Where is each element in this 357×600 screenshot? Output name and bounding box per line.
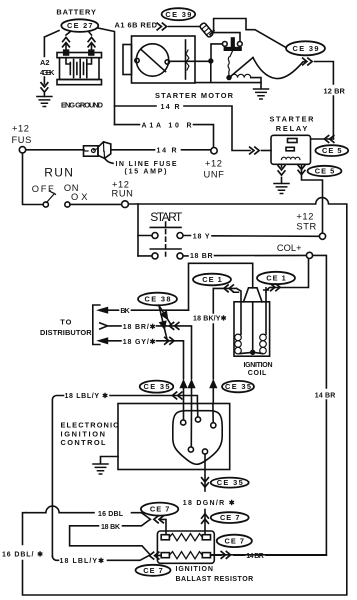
svg-text:CE 5: CE 5 — [322, 146, 342, 155]
svg-text:CE 27: CE 27 — [67, 21, 93, 30]
svg-text:4G BK: 4G BK — [40, 68, 55, 77]
svg-text:CE 35: CE 35 — [225, 382, 251, 391]
svg-text:16 DBL/ ✱: 16 DBL/ ✱ — [2, 551, 43, 559]
svg-text:IN LINE FUSE: IN LINE FUSE — [116, 161, 177, 168]
svg-text:18 BR/✱: 18 BR/✱ — [123, 323, 156, 331]
svg-text:CONTROL: CONTROL — [61, 438, 106, 447]
svg-text:CE 7: CE 7 — [150, 505, 170, 514]
svg-text:CE 7: CE 7 — [220, 513, 240, 522]
svg-text:CE 1: CE 1 — [266, 274, 286, 283]
svg-text:ELECTRONIC: ELECTRONIC — [61, 420, 120, 429]
svg-text:18 BR: 18 BR — [190, 253, 213, 260]
svg-text:14 R: 14 R — [157, 147, 177, 154]
svg-text:16 DBL: 16 DBL — [98, 511, 124, 518]
svg-text:ENG GROUND: ENG GROUND — [61, 100, 104, 109]
svg-text:RUN: RUN — [112, 189, 134, 199]
svg-text:CE 39: CE 39 — [165, 10, 191, 19]
svg-text:+12: +12 — [205, 159, 223, 169]
svg-text:18 BK: 18 BK — [101, 524, 120, 531]
svg-text:CE 38: CE 38 — [145, 295, 171, 304]
svg-text:A1A 10 R: A1A 10 R — [142, 122, 192, 129]
svg-text:IGNITION: IGNITION — [176, 566, 213, 573]
svg-text:CE 7: CE 7 — [225, 537, 245, 546]
svg-text:START: START — [150, 210, 183, 224]
svg-text:TO: TO — [60, 317, 71, 326]
svg-text:+12: +12 — [12, 123, 30, 133]
svg-text:CE 7: CE 7 — [143, 566, 163, 575]
svg-text:18 BK/Y✱: 18 BK/Y✱ — [193, 315, 227, 323]
svg-text:FUS: FUS — [12, 135, 32, 145]
svg-text:CE 39: CE 39 — [293, 44, 319, 53]
svg-text:(15 AMP): (15 AMP) — [125, 169, 167, 176]
svg-text:12 BR: 12 BR — [324, 86, 346, 95]
svg-text:RELAY: RELAY — [276, 124, 308, 133]
svg-text:STARTER: STARTER — [270, 115, 315, 124]
svg-text:CE 35: CE 35 — [217, 478, 243, 487]
svg-text:IGNITION: IGNITION — [244, 362, 273, 369]
svg-text:BALLAST RESISTOR: BALLAST RESISTOR — [176, 576, 254, 583]
svg-text:A1 6B RED: A1 6B RED — [115, 21, 158, 30]
svg-text:COL+: COL+ — [277, 243, 302, 253]
svg-text:COIL: COIL — [248, 370, 267, 377]
svg-text:DISTRIBUTOR: DISTRIBUTOR — [40, 328, 92, 337]
svg-text:BATTERY: BATTERY — [56, 8, 96, 17]
svg-text:CE 1: CE 1 — [202, 275, 222, 284]
svg-text:BK: BK — [120, 308, 129, 315]
svg-text:14 BR: 14 BR — [246, 553, 264, 560]
svg-text:STR: STR — [296, 222, 316, 232]
svg-text:OFF: OFF — [32, 184, 55, 194]
svg-text:CE 35: CE 35 — [144, 382, 170, 391]
svg-text:18 LBL/Y✱: 18 LBL/Y✱ — [60, 557, 105, 565]
svg-text:14 R: 14 R — [161, 104, 180, 111]
svg-text:A2: A2 — [40, 58, 49, 67]
svg-text:CE 5: CE 5 — [315, 167, 335, 176]
svg-text:18 DGN/R ✱: 18 DGN/R ✱ — [183, 499, 235, 507]
svg-text:OX: OX — [71, 192, 88, 202]
svg-text:18 Y: 18 Y — [193, 234, 210, 241]
svg-text:18 GY/✱: 18 GY/✱ — [123, 338, 156, 346]
svg-text:14 BR: 14 BR — [315, 393, 336, 400]
svg-text:RUN: RUN — [44, 166, 73, 180]
svg-text:STARTER MOTOR: STARTER MOTOR — [155, 91, 234, 100]
svg-text:IGNITION: IGNITION — [61, 429, 106, 438]
svg-text:18 LBL/Y ✱: 18 LBL/Y ✱ — [65, 392, 109, 400]
svg-text:UNF: UNF — [204, 169, 225, 179]
svg-text:+12: +12 — [296, 212, 314, 222]
